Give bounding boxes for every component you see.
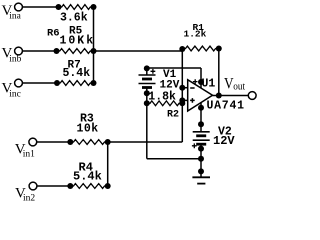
plus mark V1 positive terminal [151, 69, 156, 74]
junction dot inverting input [179, 85, 185, 91]
svg-text:inc: inc [9, 89, 21, 99]
wire output to Vout terminal [213, 95, 249, 97]
resistor R7 [57, 81, 94, 86]
junction dot V- supply pin [198, 105, 204, 111]
wire Vina to R5 [22, 6, 58, 8]
junction dot ground rail [198, 156, 204, 162]
wire stub inverting input [182, 87, 187, 89]
junction dot V1 top terminal [144, 65, 150, 71]
junction node bus / summing wire [91, 48, 97, 54]
svg-text:R2: R2 [167, 110, 179, 121]
junction dot R7 left [54, 80, 60, 86]
wire V- supply pin to V2 [200, 103, 202, 124]
junction node R5 right / bus top [91, 4, 97, 10]
junction dot R5 left [56, 4, 62, 10]
resistor R1 [182, 46, 219, 51]
svg-text:3.6k: 3.6k [60, 12, 88, 25]
terminal Vin2 [29, 182, 37, 190]
junction dot V2 bottom terminal [198, 146, 204, 152]
resistor R4 [70, 184, 107, 189]
svg-text:ina: ina [9, 12, 21, 22]
plus mark non-inverting input [190, 98, 195, 103]
junction dot R6 left [54, 48, 60, 54]
terminal Vinb [15, 47, 23, 55]
wire input bus vertical [93, 7, 95, 83]
junction dot R3 left [67, 139, 73, 145]
svg-text:10Kk: 10Kk [60, 35, 96, 48]
wire V1 plus to op-amp V+ pin [147, 67, 201, 69]
wire V+ supply pin [200, 68, 202, 88]
junction dot output node [216, 93, 222, 99]
junction dot R2 left [144, 100, 150, 106]
wire Vin1 to R3 [37, 141, 71, 143]
svg-text:12V: 12V [213, 134, 235, 148]
wire ground rail horizontal [147, 158, 201, 160]
junction dot non-inverting input [179, 97, 185, 103]
ground [192, 177, 210, 183]
junction dot V+ supply pin [198, 79, 204, 85]
junction dot V2 top terminal [198, 121, 204, 127]
wire V2 to ground [200, 149, 202, 178]
junction dot R1 right [216, 46, 222, 52]
wire input node vertical column [181, 49, 183, 143]
resistor R3 [70, 140, 107, 145]
op-amp U1 triangle [188, 80, 213, 111]
svg-text:10k: 10k [77, 122, 99, 135]
plus mark V2 positive terminal [192, 143, 197, 148]
svg-text:R6: R6 [47, 28, 60, 40]
junction dot R1 left / node A [179, 46, 185, 52]
plus mark V+ supply [193, 79, 198, 84]
wire stub non-inverting input [182, 99, 187, 101]
wire Vinb to R6 [22, 50, 56, 52]
svg-text:U1: U1 [202, 77, 216, 90]
svg-text:out: out [233, 82, 245, 93]
junction dot V1 bottom terminal [144, 90, 150, 96]
resistor R5 [59, 5, 94, 10]
svg-text:1.2k: 1.2k [184, 29, 207, 40]
svg-text:in2: in2 [23, 194, 35, 204]
battery V2 [193, 124, 210, 148]
wire non-inverting node horizontal [108, 141, 183, 143]
terminal Vinc [15, 79, 23, 87]
svg-text:inb: inb [9, 54, 21, 64]
junction node bus bottom [91, 80, 97, 86]
wire summing node to inverting input column [94, 50, 183, 52]
wire V1 minus down to ground rail [146, 93, 148, 159]
junction dot R4 right [105, 183, 111, 189]
junction dot R4 left [67, 183, 73, 189]
junction dot ground terminal [198, 168, 204, 174]
junction node R3/R4 [105, 139, 111, 145]
svg-text:UA741: UA741 [207, 99, 245, 112]
resistor R6 [57, 49, 94, 54]
op-amp inverting input marker [190, 87, 194, 89]
resistor R2 [147, 101, 183, 106]
junction dot R2 right [179, 100, 185, 106]
svg-text:12V: 12V [160, 80, 180, 92]
svg-text:5.4k: 5.4k [73, 170, 102, 184]
terminal Vina [15, 3, 23, 11]
battery V1 [139, 68, 156, 93]
wire R3/R4 junction vertical [107, 142, 109, 186]
terminal Vout [248, 92, 256, 100]
terminal Vin1 [29, 138, 37, 146]
svg-text:5.4k: 5.4k [63, 67, 91, 80]
wire Vinc to R7 [22, 82, 57, 84]
svg-text:in1: in1 [23, 150, 35, 160]
wire Vin2 to R4 [37, 185, 70, 187]
wire R1 right to output node [218, 49, 220, 96]
